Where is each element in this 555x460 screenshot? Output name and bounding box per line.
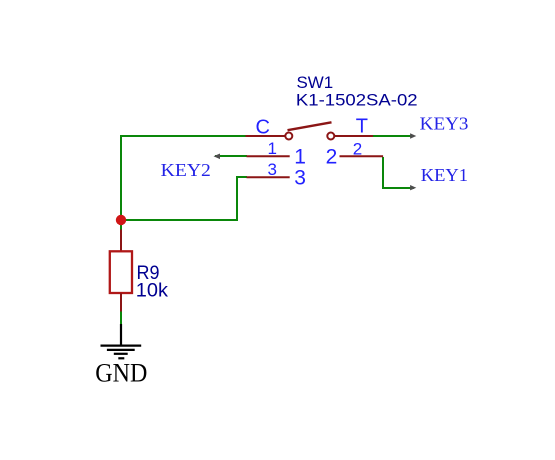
svg-text:GND: GND [95,359,147,388]
wire [120,219,122,231]
svg-text:3: 3 [294,166,306,189]
svg-text:3: 3 [268,160,277,179]
svg-text:10k: 10k [136,280,169,301]
resistor R9 pin bottom [120,293,122,312]
svg-text:2: 2 [353,139,362,158]
ground lead [120,324,122,346]
net arrow KEY2 [214,154,221,160]
wire [236,176,247,178]
svg-text:KEY1: KEY1 [421,165,468,185]
svg-text:K1-1502SA-02: K1-1502SA-02 [296,91,418,110]
svg-text:2: 2 [326,146,338,169]
svg-text:KEY2: KEY2 [161,160,211,180]
svg-text:1: 1 [268,139,277,158]
wire KEY2 [215,155,247,157]
svg-text:KEY3: KEY3 [420,114,469,134]
wire [120,135,246,137]
resistor R9 pin top [120,230,122,253]
ground [101,346,142,359]
wire [236,177,238,221]
junction node [116,215,126,225]
switch SW1 [246,122,384,177]
wire [382,157,384,188]
wire KEY1 [382,187,414,189]
net arrow KEY3 [410,133,416,138]
wire [120,310,122,325]
svg-text:T: T [356,116,368,138]
wire [120,135,122,221]
wire [121,219,238,221]
wire KEY3 [373,135,414,137]
svg-text:SW1: SW1 [297,73,334,92]
net arrow KEY1 [410,185,416,190]
svg-text:1: 1 [294,146,306,169]
resistor R9 body [110,251,132,293]
svg-text:C: C [256,116,270,138]
